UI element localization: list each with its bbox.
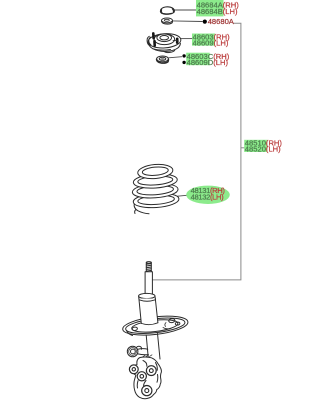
- svg-text:48680A: 48680A: [208, 17, 235, 26]
- svg-text:48609(LH): 48609(LH): [193, 38, 229, 47]
- svg-text:48609D(LH): 48609D(LH): [187, 58, 229, 67]
- svg-text:48520(LH): 48520(LH): [245, 145, 281, 154]
- svg-text:48132(LH): 48132(LH): [191, 193, 225, 202]
- svg-text:48684B(LH): 48684B(LH): [197, 7, 238, 16]
